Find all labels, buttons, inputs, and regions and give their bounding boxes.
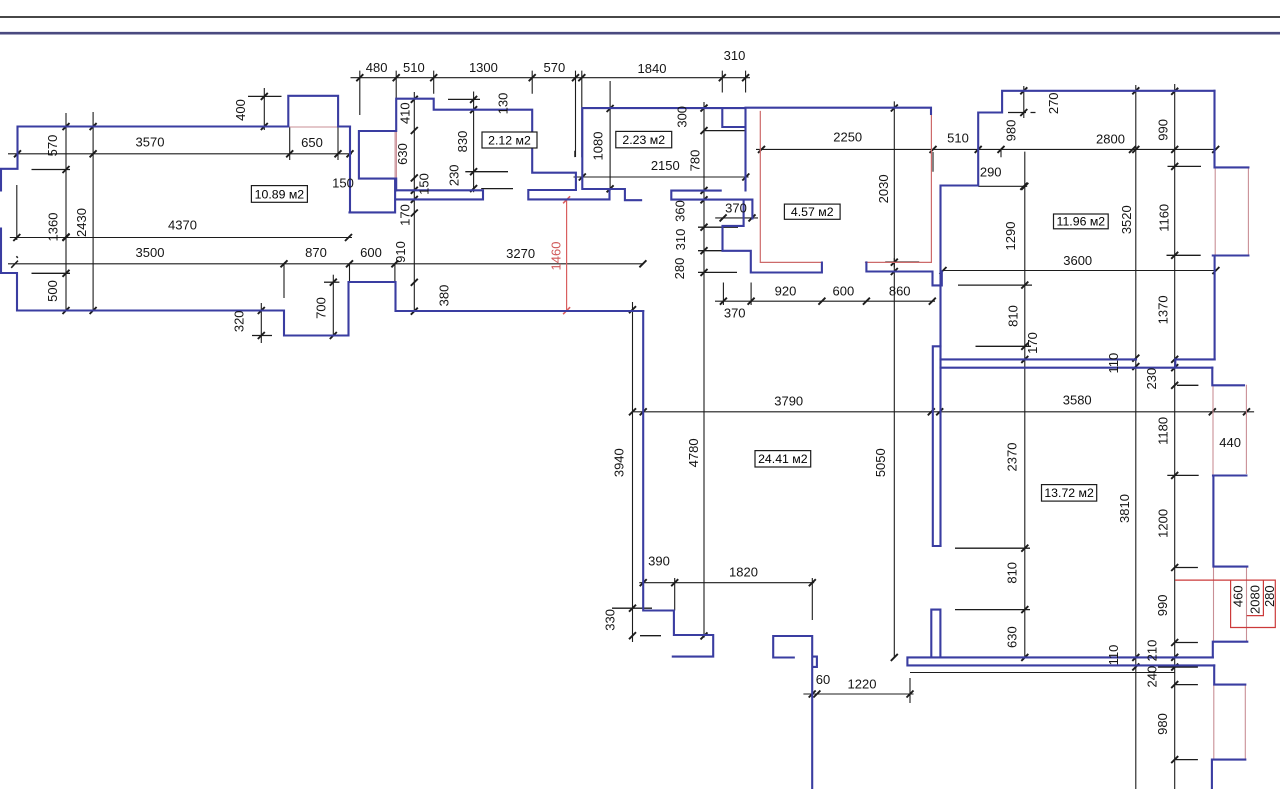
wall left room 10.89 outline: [0, 127, 643, 336]
dim line 3570-650-150: [8, 127, 354, 161]
svg-text:500: 500: [45, 280, 60, 302]
svg-text:2370: 2370: [1005, 443, 1020, 472]
svg-text:2250: 2250: [833, 130, 862, 145]
dim vertical 270: [1008, 86, 1036, 118]
wall room 2.12 outline: [396, 99, 576, 191]
svg-text:980: 980: [1004, 120, 1019, 142]
svg-text:2030: 2030: [876, 174, 891, 203]
svg-text:110: 110: [1106, 645, 1121, 666]
svg-text:310: 310: [724, 48, 746, 63]
room label 11.96 м2: [1054, 214, 1109, 229]
wall pier upper: [933, 346, 941, 546]
room label 10.89 м2: [251, 186, 307, 203]
dim vertical 3940-330: [612, 302, 661, 642]
svg-text:1080: 1080: [591, 132, 606, 161]
svg-text:24.41 м2: 24.41 м2: [758, 452, 808, 466]
dim vertical 5050: [891, 258, 898, 661]
dim line 4370: [10, 185, 352, 241]
svg-text:630: 630: [1005, 626, 1020, 648]
dim vertical 1290-810-170-2370-810-630: [955, 152, 1032, 661]
svg-text:3520: 3520: [1119, 205, 1134, 234]
room label 13.72 м2: [1042, 485, 1097, 502]
dim vertical 700: [324, 275, 339, 339]
svg-text:830: 830: [455, 131, 470, 153]
wall right side middle: [1213, 476, 1248, 658]
dim line 2250-510-2800: [756, 146, 1219, 172]
svg-text:980: 980: [1155, 713, 1170, 735]
svg-text:360: 360: [673, 200, 688, 222]
top navy rule: [0, 32, 1280, 35]
svg-text:390: 390: [648, 554, 670, 569]
svg-text:5050: 5050: [873, 448, 888, 477]
svg-text:240: 240: [1145, 666, 1160, 688]
svg-text:480: 480: [366, 60, 388, 75]
svg-text:210: 210: [1145, 640, 1160, 662]
dim vertical 320: [252, 303, 272, 343]
svg-text:1160: 1160: [1157, 204, 1172, 232]
dim line 3600: [940, 267, 1220, 274]
dim vertical left 570-1360-500: [30, 113, 99, 314]
dim vertical 2030: [885, 101, 919, 275]
dim vertical 3520-3810-110-110: [1132, 85, 1139, 789]
dim vertical 130-830-230: [448, 92, 513, 193]
svg-text:170: 170: [398, 204, 413, 226]
svg-text:700: 700: [314, 297, 329, 319]
svg-text:4.57 м2: 4.57 м2: [791, 205, 834, 219]
red door dimension boxes bottom right: [1176, 580, 1276, 627]
svg-text:1290: 1290: [1003, 222, 1018, 251]
svg-text:2430: 2430: [74, 208, 89, 237]
svg-text:150: 150: [416, 173, 431, 195]
wall pier lower 13.72: [931, 610, 940, 658]
svg-text:1460: 1460: [548, 242, 563, 271]
svg-text:600: 600: [833, 283, 855, 298]
wall room 4.57 top: [746, 108, 932, 114]
svg-text:3580: 3580: [1063, 393, 1092, 408]
pink bay window 3: [1214, 567, 1247, 642]
svg-text:2150: 2150: [651, 158, 680, 173]
dim line 2150: [574, 151, 750, 181]
svg-text:3790: 3790: [774, 394, 803, 409]
svg-text:600: 600: [360, 245, 382, 260]
dim line 3790-3580-440: [633, 408, 1254, 415]
wall middle pocket: [350, 127, 396, 213]
svg-text:510: 510: [947, 131, 969, 146]
wall bottom middle pier: [773, 636, 817, 789]
svg-text:870: 870: [305, 245, 327, 260]
svg-text:3600: 3600: [1063, 253, 1092, 268]
svg-text:320: 320: [231, 310, 246, 332]
svg-text:1220: 1220: [848, 677, 877, 692]
svg-text:990: 990: [1155, 595, 1170, 617]
svg-text:460: 460: [1231, 585, 1246, 607]
svg-text:1820: 1820: [729, 565, 758, 580]
svg-text:920: 920: [775, 283, 797, 298]
svg-text:2.23 м2: 2.23 м2: [622, 133, 665, 147]
svg-text:570: 570: [544, 60, 566, 75]
svg-text:370: 370: [725, 200, 747, 215]
svg-text:990: 990: [1155, 119, 1170, 141]
room label 4.57 м2: [784, 204, 840, 219]
dim line bottom extension: [910, 672, 1175, 674]
wall bottom double: [907, 657, 1214, 665]
svg-text:370: 370: [724, 306, 746, 321]
red dim 1460 with end ticks: [563, 196, 570, 314]
svg-text:380: 380: [437, 285, 452, 307]
svg-text:290: 290: [980, 164, 1002, 179]
svg-text:810: 810: [1006, 305, 1021, 327]
pink bay window 1: [1215, 167, 1248, 255]
svg-text:110: 110: [1106, 353, 1121, 374]
dim line 290 extension: [978, 183, 1027, 190]
svg-text:1300: 1300: [469, 60, 498, 75]
top black rule: [0, 16, 1280, 18]
svg-text:2.12 м2: 2.12 м2: [488, 133, 531, 147]
svg-text:280: 280: [1262, 585, 1277, 607]
svg-text:780: 780: [688, 150, 703, 172]
dim vertical 1080: [598, 81, 614, 192]
dim vertical left 2430: [90, 112, 97, 314]
wall below room 4.57 right: [866, 262, 941, 285]
svg-text:60: 60: [816, 672, 830, 687]
svg-text:1180: 1180: [1156, 417, 1171, 445]
svg-text:570: 570: [45, 135, 60, 157]
svg-text:440: 440: [1219, 435, 1241, 450]
svg-text:3270: 3270: [506, 246, 535, 261]
svg-text:150: 150: [332, 176, 354, 191]
svg-text:1840: 1840: [638, 61, 667, 76]
svg-text:4780: 4780: [686, 438, 701, 467]
pink bay window 4: [1214, 685, 1246, 760]
dim line 370-920-600-860: [715, 283, 936, 306]
wall right side upper: [1212, 91, 1248, 386]
corridor wall segments: [671, 191, 822, 273]
dim line 370 upper: [715, 214, 758, 221]
dim vertical 300-780-360-310-280-4780: [698, 102, 746, 639]
dim line top 480-510-1300-570-1840-310: [351, 71, 751, 158]
room label 2.12 м2: [482, 132, 537, 148]
svg-text:3500: 3500: [136, 245, 165, 260]
wall top bump: [288, 96, 350, 127]
dim line 60-1220: [803, 676, 913, 703]
svg-text:230: 230: [446, 164, 461, 186]
wall room 24.41 bottom steps: [643, 311, 713, 657]
svg-text:650: 650: [301, 135, 323, 150]
svg-text:3940: 3940: [612, 448, 627, 477]
svg-text:280: 280: [672, 258, 687, 280]
svg-text:1370: 1370: [1155, 295, 1170, 324]
svg-text:400: 400: [233, 99, 248, 121]
svg-text:1360: 1360: [45, 213, 60, 242]
wall right side lower: [1212, 665, 1245, 789]
svg-text:630: 630: [395, 143, 410, 165]
window sill bar 1: [396, 190, 483, 199]
dim vertical right 990-1160-1370-230-1180-1200-990-210-240-980: [1158, 84, 1201, 789]
svg-text:170: 170: [1025, 332, 1040, 354]
svg-text:130: 130: [496, 93, 511, 115]
svg-text:270: 270: [1046, 92, 1061, 114]
pink bay window 2: [1213, 385, 1246, 475]
room label 24.41 м2: [755, 451, 811, 467]
svg-text:910: 910: [393, 241, 408, 263]
svg-text:3570: 3570: [136, 135, 165, 150]
svg-text:330: 330: [602, 609, 617, 631]
svg-text:300: 300: [674, 106, 689, 128]
dim line 1820-390: [639, 578, 816, 620]
wall room 11.96 outline: [941, 91, 1215, 546]
svg-text:10.89 м2: 10.89 м2: [255, 187, 305, 201]
dim vertical 410-630-150-170-910-380: [411, 92, 418, 315]
svg-text:2080: 2080: [1247, 585, 1262, 614]
svg-text:810: 810: [1005, 562, 1020, 584]
svg-text:2800: 2800: [1096, 131, 1125, 146]
svg-text:13.72 м2: 13.72 м2: [1044, 486, 1094, 500]
svg-text:230: 230: [1144, 368, 1159, 390]
svg-text:310: 310: [673, 229, 688, 251]
svg-text:1200: 1200: [1156, 509, 1171, 538]
pink pocket right side: [395, 131, 396, 179]
svg-text:860: 860: [889, 283, 911, 298]
svg-text:4370: 4370: [168, 218, 197, 233]
svg-text:11.96 м2: 11.96 м2: [1057, 215, 1106, 229]
dim vertical 400: [248, 88, 282, 130]
pink line under bump: [288, 126, 338, 128]
svg-text:3810: 3810: [1117, 494, 1132, 523]
window sill bar 2: [528, 190, 609, 199]
room label 2.23 м2: [616, 131, 672, 147]
dim line 3500-870-600-3270: [8, 260, 646, 298]
svg-text:510: 510: [403, 60, 425, 75]
end mark on 3500 dim line: [11, 256, 18, 268]
pink room 4.57 inner outline: [760, 112, 931, 263]
svg-text:410: 410: [398, 102, 413, 124]
corridor double wall right: [941, 359, 1215, 367]
wall room 2.23 outline: [582, 108, 745, 200]
